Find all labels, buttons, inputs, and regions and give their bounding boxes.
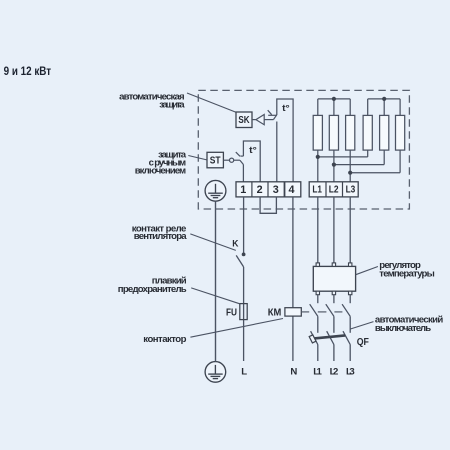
svg-text:K: K <box>232 238 239 248</box>
svg-text:L3: L3 <box>346 185 356 196</box>
svg-text:L: L <box>241 366 247 377</box>
svg-text:L2: L2 <box>329 185 339 196</box>
svg-text:L2: L2 <box>330 366 339 377</box>
svg-text:QF: QF <box>357 337 369 348</box>
svg-text:t°: t° <box>249 145 257 156</box>
svg-text:включением: включением <box>135 166 186 177</box>
svg-text:вентилятора: вентилятора <box>134 231 187 242</box>
svg-text:N: N <box>290 366 297 377</box>
svg-text:L1: L1 <box>312 185 322 196</box>
svg-text:L1: L1 <box>313 366 322 377</box>
svg-text:контактор: контактор <box>143 334 186 345</box>
svg-text:ST: ST <box>210 156 221 167</box>
svg-text:2: 2 <box>257 184 263 196</box>
svg-text:защита: защита <box>159 100 185 111</box>
svg-text:3: 3 <box>273 184 279 196</box>
svg-text:SK: SK <box>238 115 250 126</box>
svg-text:9 и 12 кВт: 9 и 12 кВт <box>4 64 52 78</box>
svg-text:L3: L3 <box>346 366 355 377</box>
svg-text:температуры: температуры <box>379 268 435 279</box>
svg-text:1: 1 <box>240 184 246 196</box>
svg-text:выключатель: выключатель <box>375 323 431 334</box>
svg-text:FU: FU <box>226 307 237 318</box>
svg-text:t°: t° <box>282 103 290 114</box>
svg-text:КМ: КМ <box>268 308 282 319</box>
svg-text:4: 4 <box>288 184 294 196</box>
svg-text:предохранитель: предохранитель <box>118 284 187 295</box>
